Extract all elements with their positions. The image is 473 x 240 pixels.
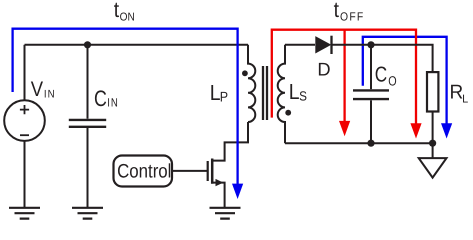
ground input 2 — [72, 208, 103, 219]
ground transistor — [210, 208, 241, 219]
ground input 1 — [9, 208, 40, 219]
wire top rail — [25, 44, 249, 46]
wire Cin vertical top — [87, 45, 89, 119]
capacitor CO plates — [353, 90, 389, 99]
svg-text:RL: RL — [450, 82, 469, 106]
polarity dot LS — [285, 110, 291, 116]
transistor Q1 channel bar — [211, 159, 214, 184]
wire Cin vertical bottom — [87, 128, 89, 207]
wire source leads — [211, 183, 225, 207]
wire Vin bottom lead — [24, 141, 26, 207]
svg-text:CIN: CIN — [94, 86, 119, 111]
svg-text:CO: CO — [375, 63, 397, 89]
wire secondary top to diode — [285, 44, 315, 46]
wire blue output arrowhead — [441, 123, 452, 138]
junction dot Cin top — [84, 41, 91, 48]
wire gate lead — [172, 170, 207, 172]
wire blue input arrowhead — [232, 184, 243, 199]
capacitor CO bottom stub — [370, 100, 372, 143]
wire diode cathode to RL corner — [332, 45, 433, 72]
svg-text:LS: LS — [289, 79, 307, 104]
capacitor CIN plates — [69, 120, 106, 127]
black circuit — [4, 36, 438, 207]
svg-text:Control: Control — [117, 160, 171, 182]
source V1 circle — [4, 100, 45, 141]
control block U1 — [114, 156, 173, 187]
junction dot Co top — [367, 41, 374, 48]
polarity dot LP — [242, 70, 248, 76]
wire red arrowhead right — [410, 123, 421, 138]
plus sign of source — [20, 105, 29, 114]
svg-text:VIN: VIN — [31, 78, 56, 101]
wire Vin top lead — [24, 45, 26, 100]
svg-text:D: D — [317, 58, 330, 79]
wire bottom rail secondary — [285, 142, 433, 144]
capacitor CO top stub — [370, 45, 372, 89]
wire drain leads — [211, 122, 248, 161]
wire red branch arrow shaft — [343, 30, 345, 122]
transistor Q1 source arrow — [216, 179, 224, 186]
svg-text:tOFF: tOFF — [334, 0, 365, 23]
wire blue input loop (drawn on top) — [13, 29, 238, 185]
resistor RL body — [427, 72, 438, 111]
junction dot RL bottom — [429, 140, 436, 147]
inductor LP primary winding — [248, 45, 255, 122]
transistor Q1 gate bar — [207, 161, 209, 181]
wire blue output loop Co->RL — [363, 37, 447, 124]
node OUT blue loop (output current path, drawn under black) — [363, 37, 447, 124]
svg-text:LP: LP — [210, 80, 228, 105]
diode D cathode bar — [330, 36, 332, 54]
junction dot Co bottom — [367, 140, 374, 147]
transformer core — [263, 66, 267, 120]
svg-text:tON: tON — [114, 0, 135, 23]
wire output ground stub — [432, 143, 434, 158]
wire red tOFF loop — [272, 30, 416, 124]
node t_OFF red loop — [272, 30, 416, 124]
minus sign of source — [20, 134, 29, 136]
ground output triangle — [419, 158, 447, 178]
wire red arrowhead left — [339, 121, 350, 136]
diode D triangle — [315, 36, 331, 53]
wire RL bottom lead — [432, 112, 434, 144]
inductor LS secondary winding — [278, 45, 285, 143]
